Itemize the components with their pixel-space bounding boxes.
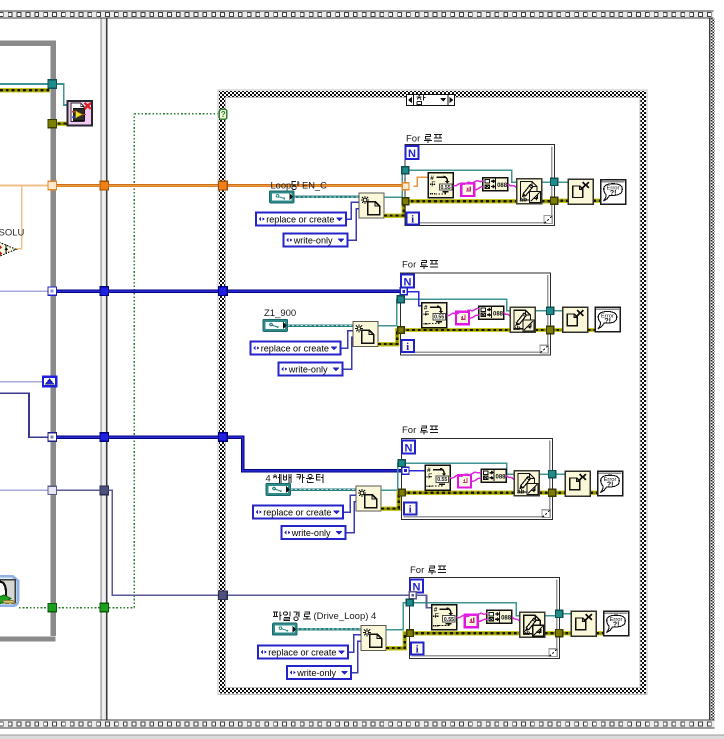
enum constant 'write-only' 1 [284, 234, 348, 247]
wire: string pink 2c [504, 312, 510, 316]
For loop 4 count terminal N [410, 580, 423, 594]
svg-text:For: For [410, 565, 424, 576]
wire: string pink 4c [512, 617, 520, 622]
svg-text:replace or create: replace or create [261, 343, 329, 353]
close reference VI U1 (pink application-control icon) [68, 101, 93, 126]
enum constant 'replace or create' 4 [258, 646, 348, 659]
svg-text:EN_C: EN_C [302, 181, 327, 191]
wire: error cluster dashed 3 [381, 493, 402, 509]
svg-text:0.55: 0.55 [437, 477, 447, 483]
label: path control 4 [273, 612, 311, 621]
wire: string pink 1c [508, 184, 517, 188]
wire: file refnum teal 4 [386, 603, 410, 630]
svg-text:Z1_900: Z1_900 [264, 308, 296, 319]
wire: file refnum teal 1 [384, 170, 405, 197]
svg-text:N: N [404, 276, 412, 288]
wire: string pink 3a [450, 472, 481, 478]
wire: string pink 1a [453, 181, 483, 186]
wire: string pink 3b [471, 478, 481, 481]
end-of-line constant 4 [465, 615, 478, 628]
case selector label box [407, 94, 455, 106]
concatenate-strings node 4 [487, 610, 512, 623]
For loop 4 iteration terminal i [411, 643, 424, 656]
wire: path (dashed teal) 2 [288, 324, 354, 326]
wire: teal refnum into while loop tunnel [0, 83, 48, 85]
wire: refnum teal loop-out to close 4 [545, 615, 560, 617]
case selector text (true) [417, 95, 426, 104]
wire: combo2 to open node 3 [346, 502, 357, 533]
flat sequence bottom border (film strip) [0, 720, 714, 729]
Simple Error Handler node 3 [598, 471, 623, 496]
case structure border (checkered) [218, 90, 647, 695]
subVI icon bottom-left (cut) [0, 576, 18, 605]
wire: combo1 to open node 2 [341, 331, 354, 348]
svg-text:ab: ab [513, 325, 521, 332]
wire: refnum teal loop-out to close 1 [542, 181, 555, 183]
svg-text:4: 4 [266, 474, 271, 484]
svg-text:Loop: Loop [271, 181, 292, 191]
Open/Create/Replace File node 3 [356, 486, 381, 511]
concatenate-strings node 2 [479, 306, 504, 319]
Write to Text File node 2 [510, 307, 535, 332]
comparison node (triangle) partially cut [0, 240, 16, 259]
svg-text:N: N [405, 442, 413, 454]
wire: lavender thin at y291 inside while loop [0, 290, 48, 292]
concatenate-strings node 1 [483, 178, 508, 191]
flat sequence frame divider [101, 19, 108, 720]
format-number node 1 [428, 173, 453, 198]
wire: orange DBL to For loop 1 [57, 184, 101, 187]
wire: combo2 to open node 2 [343, 337, 354, 369]
end-of-line constant 3 [458, 475, 471, 488]
path control terminal 2 [263, 320, 288, 332]
svg-text:SOLU: SOLU [0, 228, 25, 239]
Simple Error Handler node 2 [595, 307, 620, 332]
wire: file refnum teal 3 [381, 463, 402, 490]
enum constant 'replace or create' 3 [253, 506, 343, 519]
svg-text:For: For [406, 133, 420, 144]
For loop 3 count terminal N [402, 441, 415, 455]
svg-text:ab: ab [523, 630, 531, 637]
wire: main data inner 3 [409, 470, 425, 472]
For loop 1 iteration terminal i [407, 213, 420, 226]
wire: lavender thin at y490 [0, 489, 48, 491]
For loop 3 iteration terminal i [404, 503, 417, 516]
wire: teal from tunnel to close-reference VI [52, 84, 68, 105]
wire: path (dashed teal) 4 [297, 628, 361, 630]
enum constant 'write-only' 3 [282, 526, 346, 539]
enum constant 'replace or create' 1 [256, 213, 346, 226]
svg-text:write-only: write-only [288, 364, 328, 374]
For loop 2 iteration terminal i [402, 340, 415, 353]
wire: main data inner 2 [407, 292, 422, 306]
wire: refnum teal loop-out to close 3 [539, 473, 553, 475]
wire: main data inner 1 [414, 177, 429, 186]
wire: error dashed stub top-left [0, 88, 50, 92]
svg-text:?: ? [221, 110, 226, 119]
svg-text:N: N [408, 148, 416, 160]
wire: error cluster dashed 2 [378, 330, 401, 344]
wire: error cluster dashed 4 [386, 633, 410, 648]
wire: combo1 to open node 4 [348, 635, 361, 652]
Open/Create/Replace File node 2 [353, 322, 378, 347]
For loop 1 count terminal N [406, 146, 419, 160]
wire: lavender thin to scroll arrow box [0, 381, 43, 383]
svg-text:0.55: 0.55 [441, 185, 451, 191]
For loop 2 structure [401, 273, 551, 355]
Simple Error Handler node 4 [604, 611, 629, 636]
svg-text:?!: ?! [613, 622, 620, 629]
svg-text:For: For [402, 259, 416, 270]
svg-text:replace or create: replace or create [263, 507, 331, 517]
svg-text:?!: ?! [607, 482, 614, 489]
Open/Create/Replace File node 4 [361, 626, 386, 651]
enum constant 'write-only' 4 [287, 666, 351, 679]
svg-text:088: 088 [497, 183, 508, 189]
wire: main data inner 4 [416, 595, 432, 607]
wire: string pink 1b [474, 187, 483, 190]
For loop 4 structure [410, 578, 560, 659]
Close File node 4 [571, 611, 596, 636]
svg-text:0.55: 0.55 [434, 315, 444, 321]
For loop 3 count tunnel [402, 467, 409, 474]
svg-text:i: i [411, 214, 414, 226]
format-number node 2 [422, 303, 447, 328]
case selector terminal [?] [219, 109, 226, 119]
wire: combo2 to open node 4 [351, 641, 361, 672]
wire: blue I32 to For loop 3 [57, 435, 101, 439]
wire: file refnum teal 2 [378, 299, 401, 325]
svg-text:?!: ?! [610, 190, 617, 197]
For loop 2 count terminal N [401, 275, 414, 289]
Close File node 2 [563, 307, 588, 332]
svg-text:For: For [402, 425, 416, 436]
svg-text:ab: ab [517, 488, 525, 495]
wire: string pink 4b [478, 619, 487, 621]
outer structure edge at very bottom [0, 735, 724, 739]
svg-text:replace or create: replace or create [268, 647, 336, 657]
flat sequence top border (film strip) [0, 11, 713, 19]
wire: path (dashed teal) 3 [291, 488, 357, 490]
wire: combo1 to open node 3 [343, 495, 356, 512]
wire: string pink 3c [506, 475, 514, 479]
Write to Text File node 3 [514, 471, 539, 496]
wire: string pink 2a [447, 308, 479, 315]
wire: combo2 to open node 1 [348, 209, 360, 240]
wire: refnum teal loop-out to close 2 [535, 310, 551, 312]
wire: string pink 4a [457, 613, 487, 618]
while loop border [0, 40, 56, 641]
format-number node 4 [432, 605, 457, 630]
wire: path (dashed teal) 1 [294, 196, 359, 198]
boolean arrow box on while border [43, 377, 56, 387]
Write to Text File node 1 [517, 179, 542, 204]
path control terminal 3 [266, 484, 291, 496]
svg-text:replace or create: replace or create [266, 214, 334, 224]
wire: combo1 to open node 1 [346, 202, 359, 219]
flat sequence right border (vertical film edge) [710, 19, 715, 720]
wire: string pink 2b [469, 315, 479, 318]
wire: error dashed from tunnel to close-reference VI [52, 121, 68, 125]
svg-text:write-only: write-only [296, 668, 336, 678]
enum constant 'replace or create' 2 [251, 342, 341, 355]
svg-text:?!: ?! [604, 318, 611, 325]
wire: error cluster dashed 1 [384, 201, 405, 215]
svg-text:088: 088 [501, 616, 512, 622]
end-of-line constant 2 [456, 312, 469, 325]
Open/Create/Replace File node 1 [359, 193, 384, 218]
svg-text:write-only: write-only [291, 528, 331, 538]
svg-text:ab: ab [520, 196, 528, 203]
svg-text:i: i [406, 341, 409, 353]
svg-text:0.55: 0.55 [444, 617, 454, 623]
Close File node 1 [568, 179, 593, 204]
svg-text:i: i [416, 644, 419, 656]
wire: green boolean dotted from subVI to case selector [19, 607, 134, 609]
wire: tan DBL inside while loop [0, 185, 48, 187]
Write to Text File node 4 [520, 612, 545, 637]
svg-text:write-only: write-only [293, 235, 333, 245]
wire: blue I32 to For loop 2 [57, 289, 101, 293]
For loop 1 structure [405, 145, 555, 226]
wire: navy thin elbow into while tunnel y437 [0, 393, 48, 437]
svg-text:i: i [409, 504, 412, 516]
path control terminal 4 [273, 623, 298, 635]
path control terminal 1 [270, 191, 295, 203]
svg-text:088: 088 [496, 474, 507, 480]
svg-text:088: 088 [493, 311, 504, 317]
format-number node 3 [425, 465, 450, 490]
For loop 3 structure [402, 439, 553, 520]
Simple Error Handler node 1 [601, 180, 626, 205]
svg-text:(Drive_Loop) 4: (Drive_Loop) 4 [314, 611, 377, 622]
enum constant 'write-only' 2 [279, 363, 343, 376]
For loop 4 count tunnel [409, 592, 416, 599]
end-of-line constant 1 [461, 184, 474, 197]
For loop 2 count tunnel [400, 288, 407, 295]
concatenate-strings node 3 [481, 469, 506, 482]
Close File node 3 [565, 471, 590, 496]
wire: slate to For loop 4 [57, 489, 101, 491]
